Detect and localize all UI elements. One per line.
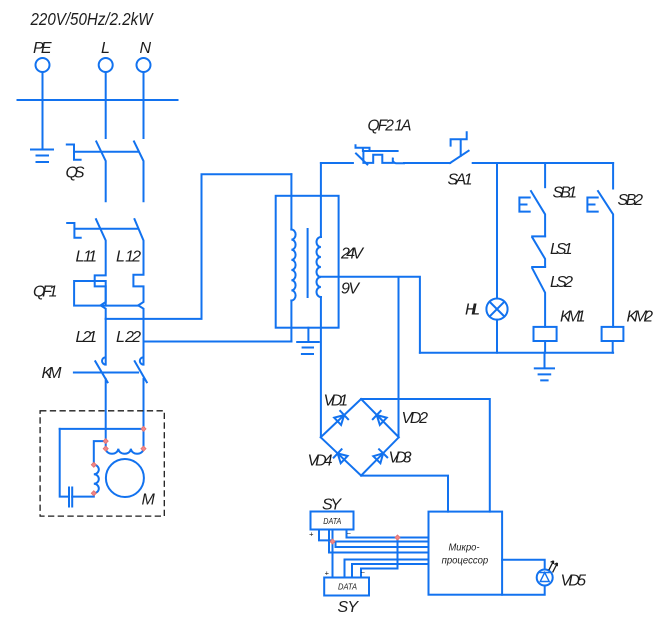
svg-text:SY: SY xyxy=(338,599,360,616)
svg-text:KM2: KM2 xyxy=(627,309,654,326)
svg-text:DATA: DATA xyxy=(338,583,357,592)
svg-text:+: + xyxy=(325,569,330,578)
svg-text:VD1: VD1 xyxy=(324,393,349,410)
svg-text:VD3: VD3 xyxy=(389,450,412,467)
svg-text:LS1: LS1 xyxy=(550,241,573,258)
svg-text:−: − xyxy=(361,568,366,577)
svg-text:QF2 1A: QF2 1A xyxy=(368,117,412,134)
svg-text:SY: SY xyxy=(322,497,342,514)
svg-text:Микро-: Микро- xyxy=(449,541,480,553)
svg-text:220V/50Hz/2.2kW: 220V/50Hz/2.2kW xyxy=(30,9,154,29)
svg-text:SA1: SA1 xyxy=(448,172,473,189)
svg-text:PE: PE xyxy=(33,40,52,57)
svg-text:LS2: LS2 xyxy=(550,274,573,291)
svg-text:L 11: L 11 xyxy=(76,248,98,265)
svg-text:QS: QS xyxy=(66,165,85,182)
svg-text:L 12: L 12 xyxy=(116,248,141,265)
svg-text:−: − xyxy=(347,529,352,538)
svg-text:HL: HL xyxy=(465,302,480,319)
svg-text:VD4: VD4 xyxy=(308,453,333,470)
svg-text:L 21: L 21 xyxy=(76,329,98,346)
svg-text:VD5: VD5 xyxy=(561,572,587,589)
svg-text:24 V: 24 V xyxy=(340,246,364,263)
svg-text:L: L xyxy=(101,40,110,57)
svg-text:N: N xyxy=(140,40,152,57)
svg-text:VD2: VD2 xyxy=(402,410,429,427)
svg-text:процессор: процессор xyxy=(442,554,489,566)
svg-text:DATA: DATA xyxy=(323,517,341,526)
svg-text:QF1: QF1 xyxy=(33,284,58,301)
svg-text:+: + xyxy=(309,530,314,539)
svg-text:M: M xyxy=(142,492,156,509)
svg-text:KM1: KM1 xyxy=(560,309,586,326)
svg-text:SB1: SB1 xyxy=(553,185,578,202)
svg-text:L 22: L 22 xyxy=(116,329,141,346)
svg-text:SB2: SB2 xyxy=(618,192,644,209)
svg-text:9V: 9V xyxy=(341,281,360,298)
svg-text:KM: KM xyxy=(42,365,63,382)
